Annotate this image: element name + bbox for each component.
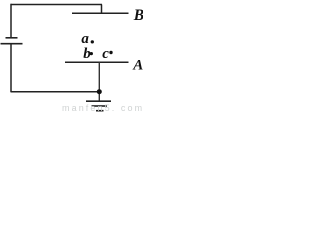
wire: bottom horizontal <box>11 91 100 93</box>
svg-text:a: a <box>81 31 89 47</box>
node c dot <box>109 51 112 54</box>
capacitor plate A <box>65 61 129 63</box>
capacitor plate B <box>72 12 129 14</box>
battery cell: short plate <box>6 37 18 39</box>
svg-text:manfen5. com: manfen5. com <box>62 103 143 113</box>
wire: vertical drop from top wire to plate B <box>101 5 103 14</box>
node a dot <box>91 40 94 43</box>
svg-text:c: c <box>102 46 109 62</box>
wire: top horizontal from battery to plate B drop <box>11 4 103 6</box>
wire: left vertical, battery positive lead <box>10 4 12 37</box>
ground: bar 1 <box>86 100 111 102</box>
ground: bar 2 <box>92 105 108 107</box>
svg-text:B: B <box>133 7 143 24</box>
battery cell: long plate <box>1 43 23 45</box>
wire: left vertical, battery negative lead <box>10 44 12 92</box>
node b dot <box>90 52 93 55</box>
wire: vertical from plate A down to ground <box>98 62 100 101</box>
ground: bar 3 <box>96 110 104 112</box>
junction dot <box>97 89 102 94</box>
svg-text:A: A <box>132 58 143 74</box>
